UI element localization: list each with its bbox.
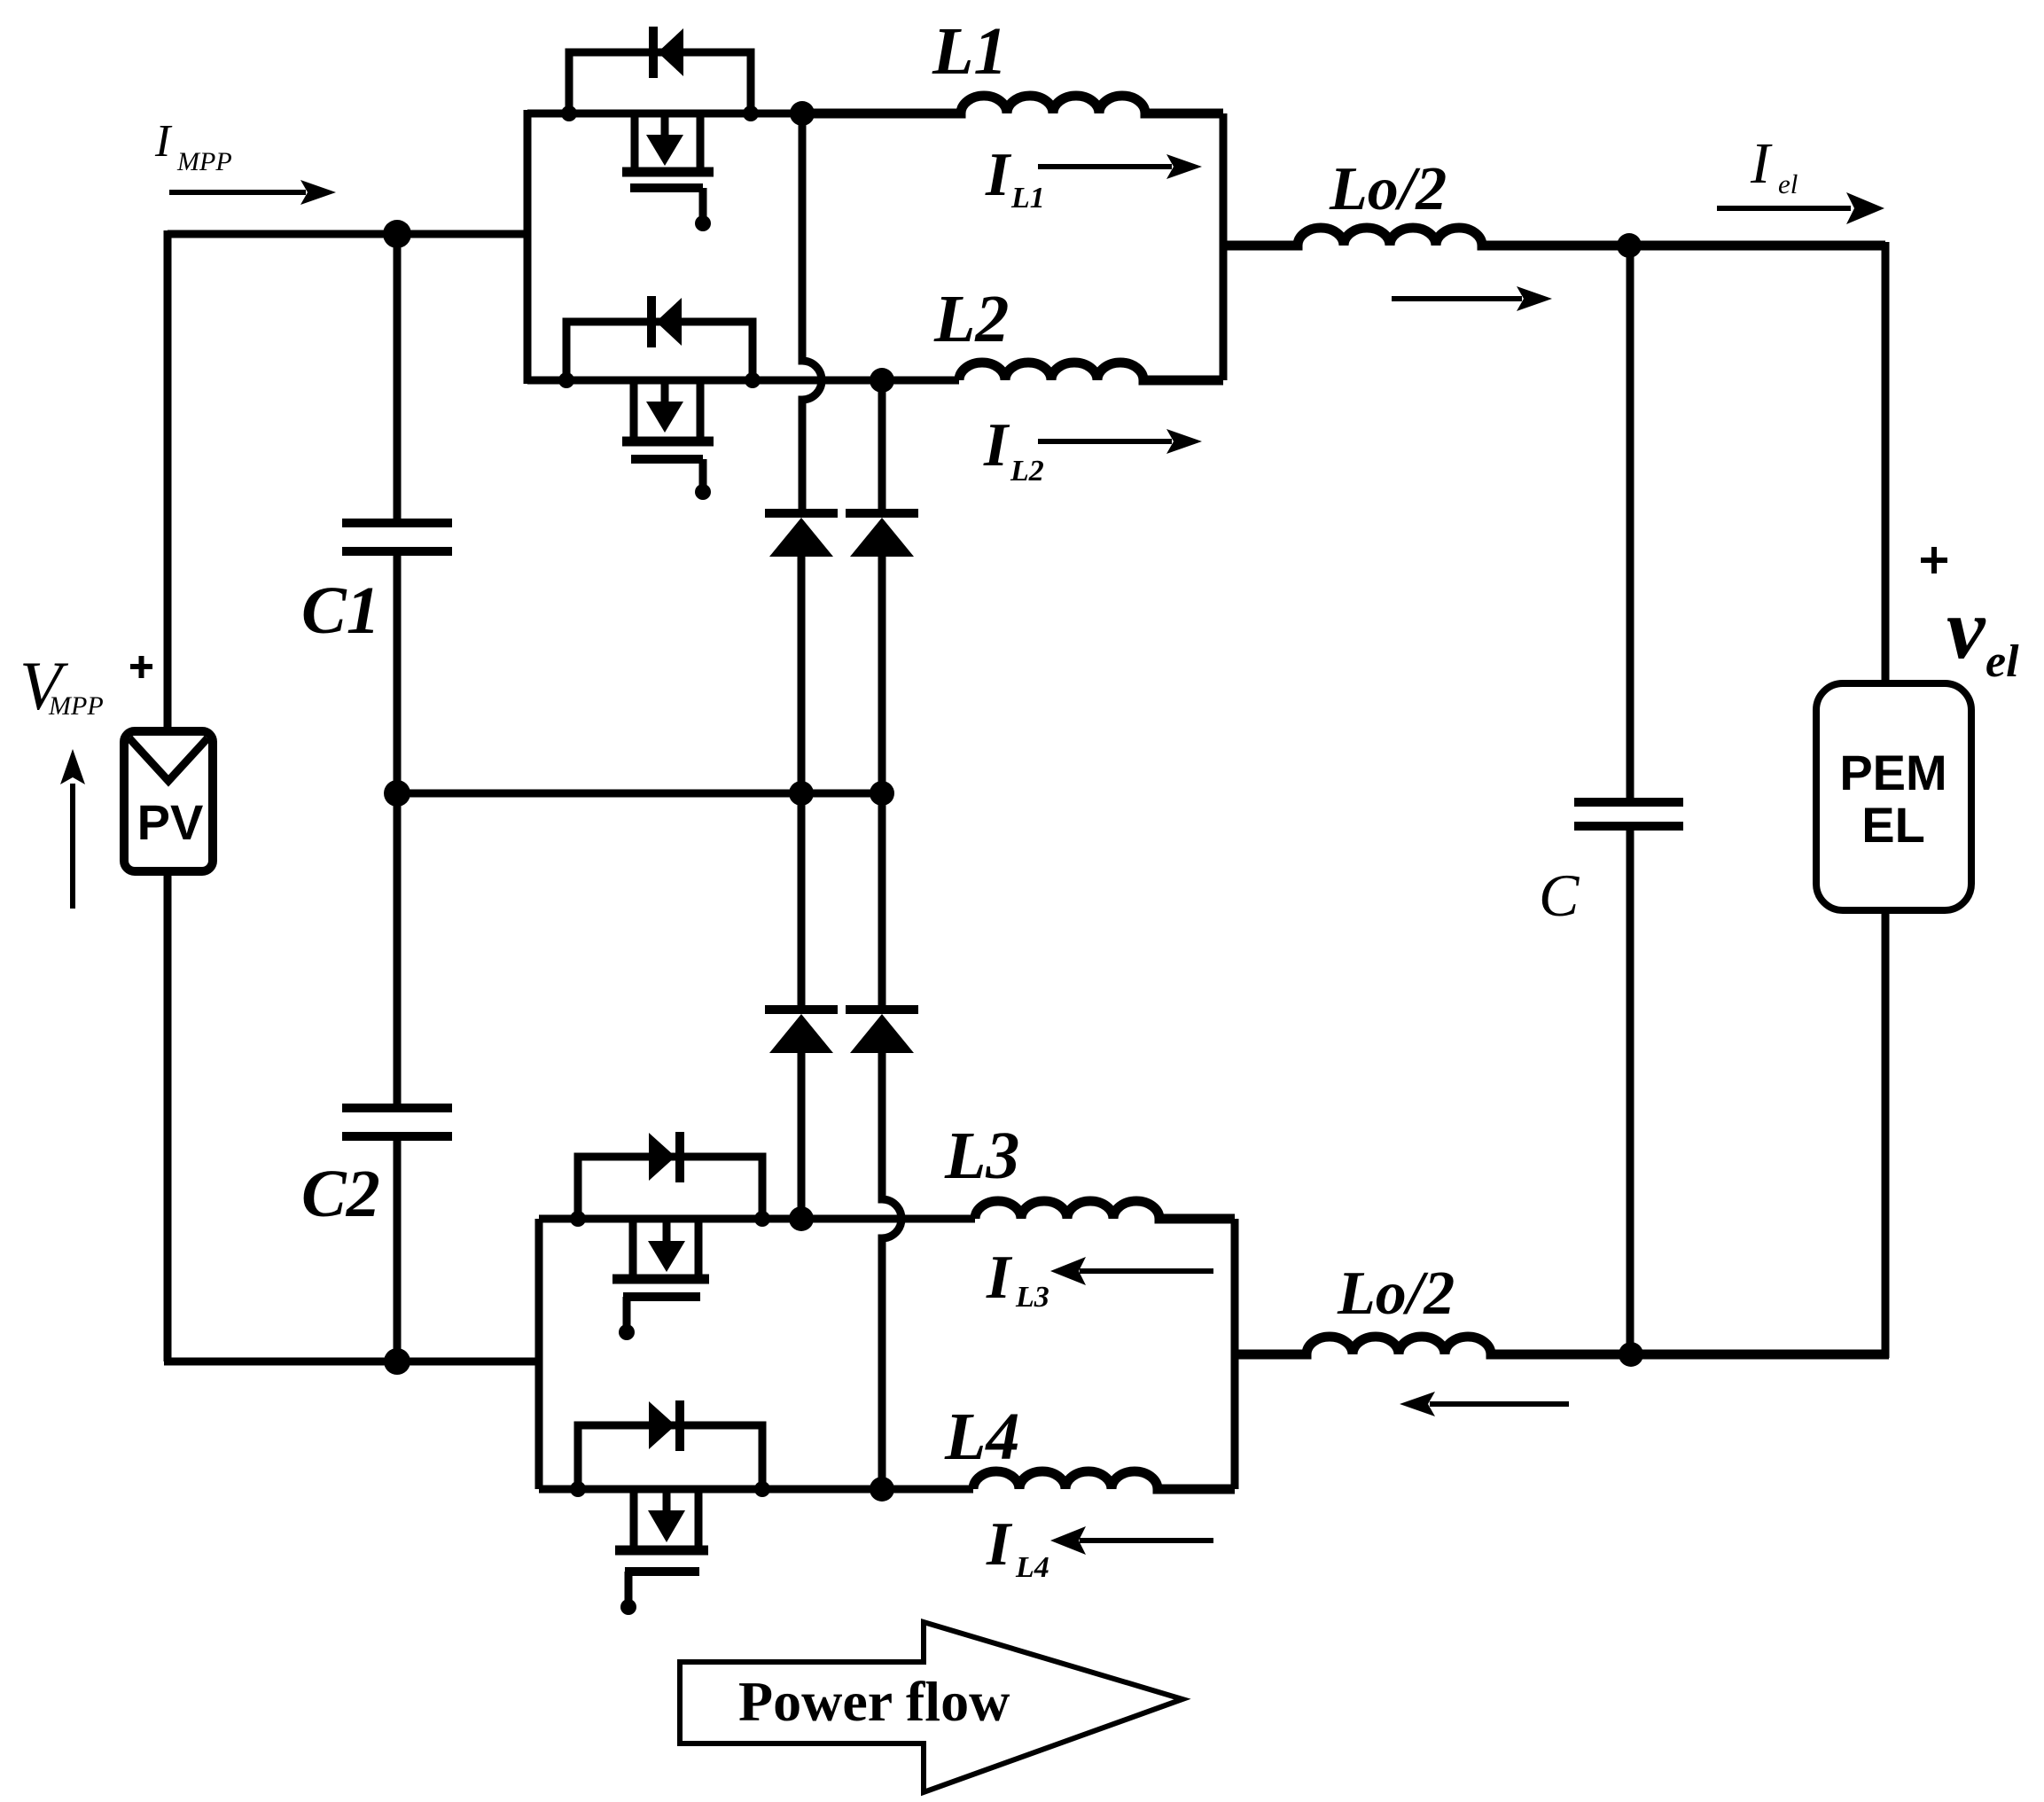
transistor Q2 drain-source rail / L2 wire left part: [527, 377, 959, 385]
wire: left column between middle rail and D3: [798, 793, 806, 1006]
transistor Q1 MOSFET left stub: [631, 113, 639, 168]
inductor L4: [973, 1471, 1235, 1489]
transistor Q2 MOSFET arrow head: [646, 402, 683, 433]
transistor Q3 channel bar: [612, 1275, 709, 1284]
PV source box: [124, 731, 213, 871]
arrow I_L2: [1038, 439, 1172, 444]
diode D1 triangle (points up): [769, 518, 833, 557]
diode D2 cathode bar (right column upper): [846, 509, 918, 518]
wire: L1 right vertical down to Lo/2: [1220, 113, 1228, 246]
node: top wire / C1 junction: [383, 220, 411, 248]
node: Q1 gate terminal: [695, 215, 711, 231]
arrow I_L4 (points left): [1080, 1538, 1213, 1543]
arrow V_MPP up: [70, 784, 75, 909]
transistor Q2 gate bar: [631, 455, 703, 464]
svg-text:I: I: [986, 1244, 1013, 1312]
wire: L4 right vertical up to bottom Lo/2: [1231, 1354, 1239, 1489]
arrow I_el: [1717, 206, 1851, 211]
inductor Lo/2 top: [1223, 228, 1885, 246]
svg-text:el: el: [1778, 168, 1798, 199]
svg-text:C: C: [1539, 862, 1580, 929]
wire: right column from L2 node to D2: [878, 380, 886, 510]
load PEM EL box: [1816, 683, 1971, 910]
svg-text:C2: C2: [301, 1157, 380, 1231]
plus sign near PV: [130, 656, 152, 678]
node: Q4 loop left: [570, 1481, 586, 1497]
svg-text:el: el: [1985, 636, 2019, 687]
wire: left rail from PV bottom to bottom wire: [164, 874, 172, 1361]
svg-text:v: v: [1946, 581, 1986, 677]
svg-text:I: I: [1750, 131, 1773, 196]
node: Q2 gate terminal: [695, 484, 711, 500]
transistor Q1 drain-source rail: [527, 110, 802, 118]
wire: right column between D2 and middle rail: [878, 550, 886, 793]
svg-text:PEM: PEM: [1839, 745, 1946, 800]
transistor Q3 MOSFET arrow head: [648, 1241, 685, 1272]
svg-text:L4: L4: [1015, 1551, 1049, 1584]
node: Q4 gate terminal: [620, 1599, 636, 1615]
node: output top / C junction: [1617, 233, 1642, 258]
transistor Q1 MOSFET arrow stub: [661, 113, 669, 137]
inductor L2: [959, 363, 1223, 380]
node: Q2 loop left: [558, 372, 574, 388]
node: output bottom / C junction: [1619, 1342, 1643, 1367]
wire: left rail from top wire down to PV top: [164, 230, 172, 729]
wire: bottom bridge left vertical rail: [535, 1219, 543, 1489]
transistor Q2 body-diode loop: [566, 322, 753, 384]
svg-text:MPP: MPP: [176, 147, 232, 176]
node: right column / middle rail: [870, 781, 894, 806]
node: Q3 gate terminal: [619, 1324, 635, 1340]
transistor Q1 gate lead: [699, 188, 707, 217]
transistor Q4 channel bar: [615, 1546, 708, 1556]
arrow below bottom Lo/2 (points left): [1430, 1401, 1569, 1407]
wire: right column from D4 with hop over L3 down to L4 node: [882, 1046, 901, 1489]
wire: middle rail to diode columns: [397, 790, 882, 798]
transistor Q3 gate bar: [623, 1292, 700, 1301]
svg-text:Lo/2: Lo/2: [1337, 1260, 1455, 1328]
svg-text:I: I: [986, 1510, 1013, 1579]
transistor Q2 MOSFET right stub: [697, 380, 705, 438]
node: Q1 loop right: [743, 105, 759, 121]
diode: Q3 body diode cathode bar: [675, 1132, 684, 1182]
transistor Q4 MOSFET right stub: [695, 1489, 703, 1547]
wire: right column between middle rail and D4: [878, 793, 886, 1006]
diode D4 cathode bar (right column lower): [846, 1005, 918, 1014]
svg-text:L3: L3: [1015, 1281, 1049, 1314]
capacitor C wire lower: [1627, 830, 1634, 1354]
svg-text:PV: PV: [137, 794, 204, 850]
node: Q3 loop left: [570, 1211, 586, 1227]
transistor Q4 MOSFET arrow head: [648, 1510, 685, 1542]
transistor Q3 MOSFET arrow stub: [663, 1219, 671, 1244]
inductor Lo/2 bottom: [1235, 1337, 1889, 1354]
arrow I_L3 (points left): [1080, 1268, 1213, 1274]
svg-text:L4: L4: [944, 1400, 1019, 1474]
diode D1 cathode bar (left column upper): [765, 509, 838, 518]
capacitor C2 plates: [342, 1108, 452, 1136]
wire: bottom return to bridge: [164, 1358, 539, 1366]
diode: Q1 body diode triangle (points left): [658, 28, 683, 76]
svg-text:Power flow: Power flow: [738, 1670, 1010, 1733]
wire: left column between D1 and middle rail: [798, 550, 806, 793]
capacitor C2 wire upper: [394, 793, 402, 1108]
transistor Q1 gate bar: [630, 183, 703, 192]
node: right column / L4 junction: [870, 1477, 894, 1502]
capacitor C1 wire lower: [394, 555, 402, 793]
svg-text:EL: EL: [1861, 797, 1925, 853]
PV chevron symbol: [129, 738, 207, 781]
wire: L2 right vertical up to Lo/2: [1220, 246, 1228, 380]
wire: PEM EL bottom down to output bottom: [1882, 909, 1890, 1358]
power flow arrow outline: [680, 1622, 1182, 1792]
wire: left diode column upper with hop over L2: [802, 113, 822, 510]
node: left column / L3 junction: [789, 1206, 814, 1231]
wire: top right corner down to PEM EL: [1882, 242, 1890, 685]
transistor Q1 body-diode loop: [569, 52, 751, 117]
arrow I_L1: [1038, 164, 1172, 169]
diode D3 cathode bar (left column lower): [765, 1005, 838, 1014]
transistor Q3 drain-source rail / L3 wire: [539, 1215, 975, 1223]
svg-text:L3: L3: [944, 1119, 1019, 1193]
transistor Q3 gate lead: [623, 1297, 631, 1326]
transistor Q2 gate lead: [699, 459, 707, 486]
transistor Q4 MOSFET arrow stub: [663, 1489, 671, 1514]
svg-text:MPP: MPP: [48, 691, 104, 721]
transistor Q1 MOSFET right stub: [697, 113, 705, 168]
svg-text:Lo/2: Lo/2: [1329, 155, 1447, 223]
diode D2 triangle (points up): [850, 518, 914, 557]
diode D3 triangle (points up): [769, 1014, 833, 1053]
diode: Q2 body diode triangle (points left): [656, 298, 682, 346]
svg-text:I: I: [154, 116, 173, 167]
capacitor C1 wire upper: [394, 234, 402, 519]
diode D4 triangle (points up): [850, 1014, 914, 1053]
node: C1/C2 midpoint: [384, 780, 410, 807]
node: Q4 loop right: [754, 1481, 770, 1497]
diode: Q1 body diode cathode bar: [649, 27, 658, 78]
wire: top bridge left vertical rail: [524, 110, 532, 384]
transistor Q4 body-diode loop: [578, 1425, 762, 1493]
node: C2 bottom junction: [384, 1348, 410, 1375]
capacitor C wire upper: [1627, 246, 1634, 802]
transistor Q4 MOSFET left stub: [630, 1489, 638, 1547]
diode: Q3 body diode triangle (points right): [649, 1133, 675, 1181]
svg-text:C1: C1: [301, 573, 380, 648]
inductor L3: [975, 1201, 1235, 1219]
transistor Q2 channel bar: [622, 437, 714, 447]
transistor Q4 gate lead: [625, 1572, 633, 1601]
transistor Q4 drain-source rail / L4 wire left part: [539, 1486, 973, 1494]
svg-text:L2: L2: [933, 282, 1009, 356]
transistor Q1 MOSFET arrow head: [646, 135, 683, 166]
transistor Q1 channel bar: [622, 168, 714, 177]
diode: Q2 body diode cathode bar: [647, 296, 656, 347]
diode: Q4 body diode cathode bar: [675, 1400, 684, 1451]
svg-text:L1: L1: [932, 14, 1007, 89]
capacitor C plates: [1574, 802, 1683, 826]
node: Q1/L1 switching node: [790, 101, 815, 126]
node: L2 / right diode column junction: [870, 368, 894, 393]
transistor Q4 gate bar: [625, 1567, 699, 1576]
wire: top input from PV+ to bridge: [168, 230, 527, 238]
node: left column / middle rail: [789, 781, 814, 806]
arrow below top Lo/2: [1392, 296, 1522, 301]
diode: Q4 body diode triangle (points right): [649, 1401, 675, 1449]
wire: L3 right vertical down to bottom Lo/2: [1231, 1219, 1239, 1354]
wire: left column from D3 down to L3 node: [798, 1046, 806, 1219]
transistor Q3 MOSFET right stub: [695, 1219, 703, 1275]
node: Q3 loop right: [754, 1211, 770, 1227]
plus sign near v_el: [1921, 547, 1947, 573]
arrow I_MPP: [169, 190, 306, 195]
svg-text:I: I: [985, 141, 1012, 209]
svg-text:I: I: [983, 411, 1010, 480]
transistor Q3 MOSFET left stub: [629, 1219, 637, 1275]
transistor Q2 MOSFET arrow stub: [661, 380, 669, 404]
node: Q1 loop left: [561, 105, 577, 121]
node: Q2 loop right: [745, 372, 761, 388]
capacitor C2 wire lower: [394, 1140, 402, 1361]
transistor Q3 body-diode loop: [578, 1157, 762, 1222]
inductor L1: [802, 96, 1223, 113]
svg-text:L1: L1: [1010, 182, 1045, 215]
transistor Q2 MOSFET left stub: [630, 380, 638, 438]
capacitor C1 plates: [342, 523, 452, 551]
svg-text:L2: L2: [1010, 455, 1044, 488]
